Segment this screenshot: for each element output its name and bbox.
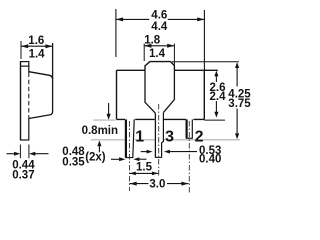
dimension 1.5 left arrow xyxy=(130,172,136,176)
dimension 1.5 line xyxy=(130,172,159,174)
side view lead top cap xyxy=(20,61,29,63)
body right edge xyxy=(203,70,205,119)
svg-text:1.8: 1.8 xyxy=(144,34,161,46)
dimension 4.25/3.75 line lower xyxy=(236,109,238,134)
svg-text:0.37: 0.37 xyxy=(12,169,34,181)
pin 1 lead right edge xyxy=(133,119,134,157)
pin 2 lead left edge xyxy=(186,119,188,138)
dimension 0.53/0.40 left arrow xyxy=(141,151,147,153)
pin 2 centerline xyxy=(188,121,190,194)
tab outline xyxy=(145,62,174,71)
svg-text:0.40: 0.40 xyxy=(199,154,221,166)
pin 1 lead left edge xyxy=(125,119,127,157)
svg-text:2: 2 xyxy=(195,128,204,145)
dimension 1.8/1.4 left arrow xyxy=(144,44,151,48)
svg-text:4.6: 4.6 xyxy=(151,9,167,21)
center lead pin 3 right edge with step xyxy=(162,113,164,158)
dimension 0.44/0.37 left extension line xyxy=(19,145,21,159)
tab to center lead right slant xyxy=(163,70,174,112)
svg-text:(2x): (2x) xyxy=(85,152,106,164)
svg-text:1.6: 1.6 xyxy=(28,35,44,47)
dimension 4.25/3.75 line upper xyxy=(236,68,238,87)
dimension 4.6/4.4 right extension line xyxy=(203,10,205,70)
svg-text:2.4: 2.4 xyxy=(210,91,227,103)
body bottom reference line left gray xyxy=(93,119,115,121)
dimension 1.6/1.4 left arrow xyxy=(21,44,28,48)
side view lead right edge upper solid xyxy=(28,62,30,73)
side view body right edge and extension xyxy=(29,43,53,119)
svg-text:3.0: 3.0 xyxy=(149,178,165,190)
dimension 4.6/4.4 right arrow xyxy=(197,17,204,21)
dimension 1.8/1.4 right extension line xyxy=(173,44,175,66)
dimension 0.53/0.40 right arrow xyxy=(170,151,198,153)
dimension 1.8/1.4 right arrow xyxy=(167,44,174,48)
svg-text:1.5: 1.5 xyxy=(136,162,153,174)
tab top extension line xyxy=(172,61,239,63)
pin 3 centerline xyxy=(158,104,160,176)
svg-text:1.4: 1.4 xyxy=(29,48,46,60)
body left edge xyxy=(116,70,118,119)
svg-text:3.75: 3.75 xyxy=(228,98,251,110)
dimension 0.44/0.37 left arrow xyxy=(7,153,15,155)
dimension 2.6/2.4 up arrow xyxy=(215,76,217,82)
dimension 0.8min down arrow xyxy=(108,103,110,115)
dimension 3.0 line xyxy=(130,183,189,185)
dimension 0.48/0.35 right-side arrow at pin 1 xyxy=(139,158,147,160)
side view lead right edge hidden dashed xyxy=(28,73,30,119)
dimension 3.0 right arrow xyxy=(181,182,188,186)
dimension 1.5 right arrow xyxy=(152,172,158,176)
tab to center lead left slant xyxy=(145,70,155,113)
dimension 4.6/4.4 left arrow xyxy=(116,17,123,21)
center lead bottom cap xyxy=(155,156,162,158)
dimension 0.48/0.35 arrow to pin 1 xyxy=(111,158,120,160)
dimension 4.6/4.4 left extension line xyxy=(115,9,117,57)
side view lead right edge lower solid xyxy=(28,118,30,140)
side view body top edge xyxy=(29,72,53,79)
svg-text:0.35: 0.35 xyxy=(62,156,85,168)
center lead pin 3 left edge xyxy=(154,113,156,157)
dimension 0.44/0.37 right arrow xyxy=(35,153,49,155)
dimension 1.8/1.4 left extension line xyxy=(143,44,145,62)
pin 2 lead right edge xyxy=(191,119,193,138)
dimension 0.8min up arrow xyxy=(98,146,100,152)
side view lead left edge xyxy=(20,62,22,141)
dimension 4.6/4.4 line xyxy=(116,18,204,20)
svg-text:3: 3 xyxy=(165,128,174,145)
dimension 1.6/1.4 right arrow xyxy=(45,44,52,48)
svg-text:1.4: 1.4 xyxy=(149,48,166,60)
dimension 1.8/1.4 line xyxy=(144,45,174,47)
body top edge segments xyxy=(117,69,218,71)
side view tab line xyxy=(20,65,29,67)
side view lead top extension line xyxy=(20,41,22,59)
pin 2 lead bottom cap xyxy=(186,137,193,139)
lead end reference line gray xyxy=(91,139,240,141)
svg-text:0.8min: 0.8min xyxy=(82,125,118,137)
side view lead bottom cap xyxy=(20,139,29,141)
body bottom extension right xyxy=(204,119,225,121)
body bottom edge segments xyxy=(117,118,205,120)
svg-text:4.4: 4.4 xyxy=(151,21,168,33)
dimension 2.6/2.4 down arrow xyxy=(215,101,217,112)
pin 1 centerline xyxy=(129,121,131,191)
dimension 3.0 left arrow xyxy=(130,182,137,186)
dimension 1.6/1.4 line xyxy=(21,45,53,47)
svg-text:1: 1 xyxy=(135,129,144,146)
pin 1 lead bottom cap xyxy=(125,157,133,159)
dimension 0.44/0.37 right extension line xyxy=(28,145,30,159)
